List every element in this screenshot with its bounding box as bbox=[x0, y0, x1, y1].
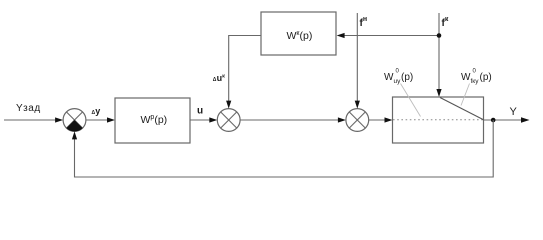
node Yзад label bbox=[16, 103, 41, 114]
node Δy label bbox=[92, 106, 101, 116]
leader line W0uy bbox=[401, 84, 421, 117]
wire feedback loop bbox=[72, 120, 493, 177]
wire fK disturbance down to object bbox=[436, 13, 441, 97]
object internal diagonal channel line bbox=[440, 98, 484, 120]
summing junction S1 bbox=[63, 109, 86, 132]
wire Yзад input bbox=[4, 117, 63, 122]
svg-text:uy: uy bbox=[394, 78, 402, 85]
object internal dotted channel line bbox=[393, 119, 483, 121]
regulator block W^p(p) bbox=[115, 98, 190, 143]
object channel W0uy label bbox=[384, 69, 413, 86]
leader line W0fky bbox=[461, 84, 470, 106]
svg-text:fку: fку bbox=[471, 78, 480, 85]
summing junction S3 bbox=[346, 109, 369, 132]
svg-text:W: W bbox=[461, 72, 471, 83]
object block bbox=[393, 97, 484, 143]
junction dot output bbox=[491, 118, 496, 123]
node ΔuK label bbox=[213, 73, 225, 83]
svg-text:(p): (p) bbox=[480, 72, 492, 83]
svg-text:Wр(p): Wр(p) bbox=[141, 114, 168, 126]
wire S2 to S3 bbox=[240, 117, 346, 122]
svg-text:W: W bbox=[384, 72, 394, 83]
node fN label bbox=[360, 16, 368, 29]
wire regulator to S2 bbox=[190, 117, 217, 122]
svg-text:Y: Y bbox=[510, 106, 518, 118]
wire fN disturbance to S3 bbox=[355, 13, 360, 109]
node fK label bbox=[442, 16, 449, 29]
wire fK to compensator input bbox=[337, 33, 439, 38]
svg-text:Yзад: Yзад bbox=[16, 103, 41, 114]
wire S3 to object bbox=[369, 117, 393, 122]
wire compensator output to S2 bbox=[226, 36, 261, 109]
node Y output label bbox=[510, 106, 518, 118]
junction dot fK bbox=[437, 33, 442, 38]
wire S1 to regulator bbox=[86, 117, 115, 122]
node u label bbox=[197, 106, 203, 117]
compensator block W^k(p) bbox=[261, 12, 336, 55]
object channel W0fky label bbox=[461, 69, 492, 86]
svg-text:Wк(p): Wк(p) bbox=[287, 30, 313, 42]
summing junction S2 bbox=[217, 109, 240, 132]
svg-text:(p): (p) bbox=[401, 72, 413, 83]
wire object output Y bbox=[484, 117, 530, 123]
svg-text:u: u bbox=[197, 106, 203, 117]
